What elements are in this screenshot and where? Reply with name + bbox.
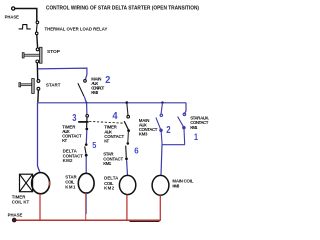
branch C wire from bus (blue)	[161, 103, 163, 115]
svg-text:PHASE: PHASE	[8, 212, 23, 217]
wire C contact to join	[160, 132, 163, 145]
thermal overload heater symbol	[19, 25, 31, 29]
svg-text:3: 3	[72, 113, 77, 124]
phase terminal (bottom)	[12, 218, 16, 222]
svg-text:DELTA: DELTA	[104, 176, 119, 181]
branch B wire from bus	[127, 103, 128, 116]
svg-text:THERMAL OVER LOAD RELAY: THERMAL OVER LOAD RELAY	[45, 27, 108, 32]
delta contact KM2 (branch A)	[85, 143, 88, 156]
label TIMER AUX CONTACT KT (branch A)	[62, 124, 82, 143]
branch D wire from bus end (blue)	[184, 103, 186, 115]
contact KM3 latch (main aux contact)	[78, 80, 86, 97]
svg-text:KM1: KM1	[103, 161, 111, 166]
star aux contact KM1 (branch D, blue)	[178, 113, 186, 145]
wire delta coil to bottom bus (red)	[126, 195, 128, 220]
label STAR AUX. CONTACT KM1	[190, 115, 209, 129]
phase terminal (top)	[12, 7, 15, 10]
svg-text:6: 6	[134, 147, 139, 156]
wire join C and D (blue)	[162, 144, 185, 146]
wire latch bottom to bus (blue)	[84, 96, 86, 102]
svg-text:KM2: KM2	[104, 186, 115, 191]
label STAR CONTACT KM1	[103, 152, 123, 166]
label TIMER COIL KT	[12, 194, 30, 204]
timer aux contact KT (branch B)	[124, 115, 130, 132]
delta coil KM2	[119, 175, 135, 194]
wire stop to start node	[36, 63, 38, 80]
wire start to bus	[37, 90, 40, 102]
wire thermal to stop	[36, 35, 39, 48]
svg-text:PHASE: PHASE	[5, 15, 19, 20]
wire star coil to bottom bus (red)	[85, 193, 87, 220]
wire branch B mid	[127, 132, 130, 142]
timer coil KT box symbol	[20, 174, 33, 192]
label MAIN AUX CONTACT KM3 (latch)	[91, 76, 104, 95]
svg-text:1: 1	[194, 132, 198, 142]
svg-text:KM3: KM3	[91, 90, 99, 95]
svg-text:2: 2	[105, 75, 110, 86]
main aux contact KM3 (branch C, blue)	[156, 114, 163, 131]
red tick on timer coil	[48, 181, 51, 186]
dashed link between timer contacts	[89, 121, 124, 123]
bottom bus dark segment	[130, 221, 160, 223]
svg-text:STOP: STOP	[47, 49, 60, 54]
wire branch A to star coil (blue)	[85, 157, 87, 174]
junction at branch C	[161, 101, 163, 103]
junction at branch B	[126, 101, 129, 104]
svg-text:KM2: KM2	[63, 158, 73, 163]
label DELTA CONTACT KM2	[63, 149, 84, 163]
svg-text:KM1: KM1	[190, 125, 198, 130]
wire main coil to bottom bus (red)	[159, 195, 161, 220]
timer coil KT circle	[32, 173, 50, 194]
label TIMER AUX CONTACT KT (branch B)	[104, 125, 124, 144]
branch A wire from bus (blue)	[86, 103, 88, 115]
thermal overload relay contact	[35, 21, 38, 35]
timer aux contact KT (branch A, timed)	[78, 115, 88, 131]
star contact KM1 (branch B)	[125, 142, 129, 160]
svg-text:5: 5	[92, 141, 97, 150]
wire latch branch top (blue)	[38, 68, 87, 79]
svg-text:KM3: KM3	[139, 131, 148, 136]
svg-text:KT: KT	[62, 138, 67, 143]
svg-text:COIL KT: COIL KT	[12, 200, 30, 205]
start push button NO	[19, 79, 40, 94]
svg-text:KM1: KM1	[65, 185, 76, 190]
label MAIN COIL KM3	[172, 179, 193, 189]
wire left rail to timer coil (blue)	[38, 103, 40, 173]
label STAR COIL KM1	[65, 175, 77, 190]
stop push button NC	[22, 47, 42, 63]
svg-text:2: 2	[166, 125, 171, 136]
wire phase top horizontal	[15, 9, 37, 22]
wire branch A mid (blue)	[85, 130, 88, 143]
svg-text:KM3: KM3	[172, 183, 179, 188]
label MAIN AUX CONTACT KM3 (branch C)	[139, 118, 158, 136]
svg-text:START: START	[46, 83, 61, 88]
svg-text:4: 4	[112, 111, 118, 122]
bus wire (blue horizontal)	[38, 102, 186, 104]
star coil KM1	[78, 173, 94, 193]
bottom bus (red)	[15, 219, 161, 221]
svg-text:KT: KT	[104, 139, 109, 144]
wire star coil blue strand	[86, 193, 88, 214]
wire join to main coil (blue)	[161, 145, 162, 176]
label DELTA COIL KM2	[104, 176, 119, 191]
wire branch B to delta coil (blue)	[126, 160, 129, 175]
main coil KM3	[152, 175, 169, 195]
svg-text:CONTROL WIRING OF STAR DELTA S: CONTROL WIRING OF STAR DELTA STARTER (OP…	[46, 6, 199, 12]
junction at branch A	[86, 102, 88, 104]
wire timer coil to bottom bus (red)	[39, 194, 41, 220]
